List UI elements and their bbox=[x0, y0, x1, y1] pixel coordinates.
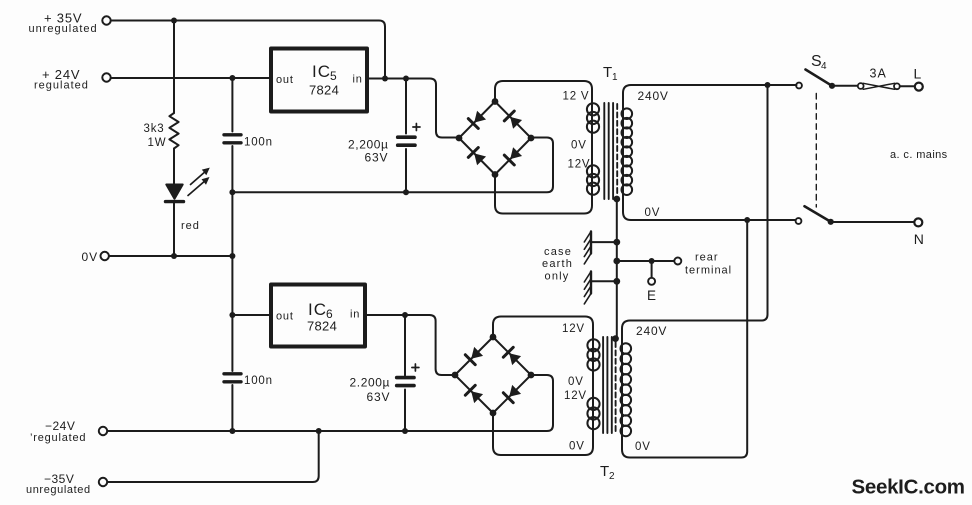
wire resistor chain top bbox=[173, 21, 175, 114]
svg-text:1W: 1W bbox=[148, 137, 167, 149]
svg-text:5: 5 bbox=[330, 69, 338, 83]
terminal +35V bbox=[102, 16, 110, 24]
svg-text:E: E bbox=[647, 288, 657, 303]
svg-text:case: case bbox=[544, 246, 572, 258]
BR2 diode D9 (bottom-right edge) bbox=[503, 384, 521, 402]
wire +24V to IC5 out bbox=[111, 77, 269, 79]
svg-text:63V: 63V bbox=[367, 390, 391, 404]
transformer T2 primary coils bbox=[587, 339, 599, 429]
svg-text:100n: 100n bbox=[244, 375, 273, 387]
switch S4 lower contact bbox=[796, 218, 802, 224]
svg-text:12 V: 12 V bbox=[563, 91, 590, 103]
terminal L bbox=[915, 83, 923, 91]
svg-text:63V: 63V bbox=[365, 151, 389, 165]
svg-text:0V: 0V bbox=[569, 441, 585, 453]
wire column x232 middle bbox=[231, 146, 233, 371]
BR2 diode D6 (top-left edge) bbox=[465, 346, 483, 364]
svg-text:0V: 0V bbox=[82, 250, 99, 264]
wire column x232 top bbox=[231, 78, 233, 132]
junction earth/ground2 bbox=[613, 278, 620, 285]
junction earth/rear bbox=[613, 258, 620, 265]
svg-text:0V: 0V bbox=[568, 376, 584, 388]
junction -24V/C4 bbox=[402, 428, 408, 434]
capacitor C2 2200u 63V plates bbox=[398, 135, 415, 139]
wire E drop bbox=[651, 261, 653, 278]
svg-text:earth: earth bbox=[542, 258, 573, 270]
terminal E bbox=[648, 278, 655, 285]
transformer T2 secondary and 240V/0V wires bbox=[622, 85, 768, 458]
node BR2 bottom bbox=[490, 410, 497, 417]
BR1 diode D4 (bottom-left edge) bbox=[468, 148, 486, 166]
wire 2200u top lead bbox=[405, 79, 407, 134]
svg-text:100n: 100n bbox=[244, 137, 273, 149]
svg-text:7824: 7824 bbox=[307, 319, 337, 334]
IC6 box bbox=[271, 285, 365, 347]
BR1 diode D3 (top-right edge) bbox=[504, 111, 522, 129]
wire switch to fuse bbox=[834, 85, 858, 87]
capacitor C4 2200u 63V plates bbox=[397, 376, 414, 380]
svg-text:2,200µ: 2,200µ bbox=[348, 138, 389, 152]
bridge rectifier BR2 diamond bbox=[455, 337, 531, 413]
switch S4 lower blade bbox=[805, 206, 831, 222]
svg-text:2.200µ: 2.200µ bbox=[350, 376, 391, 390]
svg-text:12V: 12V bbox=[568, 159, 591, 171]
transformer T1 secondary coils bbox=[622, 108, 633, 195]
terminal rear bbox=[674, 258, 681, 265]
wire -24V rail bbox=[107, 375, 553, 431]
svg-text:out: out bbox=[276, 311, 294, 323]
wire 2200u bottom lead bbox=[405, 149, 407, 192]
node BR1 bottom bbox=[492, 171, 499, 178]
junction +24V/C1 bbox=[229, 75, 235, 81]
terminal 0V bbox=[101, 252, 109, 260]
transformer T1 secondary and 240V/0V wires bbox=[623, 85, 797, 220]
wire IC6 in to bridge2 left bbox=[365, 315, 453, 375]
transformer T2 core bbox=[603, 337, 616, 433]
node BR1 right bbox=[528, 135, 535, 142]
junction earth/ground1 bbox=[613, 239, 620, 246]
svg-text:L: L bbox=[914, 66, 923, 82]
LED D1 red bbox=[166, 185, 182, 199]
junction on +35V rail at resistor bbox=[171, 18, 177, 24]
svg-text:in: in bbox=[353, 74, 363, 86]
svg-text:2: 2 bbox=[609, 471, 616, 482]
svg-text:240V: 240V bbox=[638, 89, 669, 103]
svg-text:N: N bbox=[914, 231, 925, 247]
wire IC5 in to bridge1 left bbox=[369, 79, 457, 138]
junction in-wire/C2 bbox=[403, 76, 409, 82]
svg-text:0V: 0V bbox=[635, 441, 651, 453]
BR1 diode D2 (top-left edge) bbox=[468, 110, 486, 128]
junction 0V/N line bbox=[744, 217, 750, 223]
svg-text:0V: 0V bbox=[645, 207, 661, 219]
svg-text:12V: 12V bbox=[564, 390, 587, 402]
svg-text:red: red bbox=[181, 220, 200, 232]
svg-text:0V: 0V bbox=[571, 140, 587, 152]
wire BR1 to T1 primary loop bbox=[495, 81, 592, 214]
LED arrows bbox=[188, 171, 207, 196]
terminal -24V bbox=[99, 427, 107, 435]
svg-text:regulated: regulated bbox=[34, 80, 89, 92]
junction rear/E bbox=[649, 258, 655, 264]
switch S4 upper contact bbox=[796, 83, 802, 89]
wire 2200u-2 bottom lead bbox=[404, 390, 406, 432]
svg-text:IC: IC bbox=[312, 62, 331, 81]
capacitor C3 100n plates bbox=[224, 372, 241, 375]
svg-text:a. c. mains: a. c. mains bbox=[890, 149, 948, 161]
node BR1 top bbox=[492, 98, 499, 105]
node BR2 left bbox=[452, 372, 459, 379]
svg-text:in: in bbox=[350, 309, 360, 321]
svg-text:only: only bbox=[545, 271, 570, 283]
node BR2 right bbox=[528, 372, 535, 379]
C2 plus sign bbox=[413, 124, 420, 131]
svg-text:−24V: −24V bbox=[45, 419, 75, 433]
junction T2 screen bbox=[612, 335, 619, 342]
BR2 diode D7 (top-right edge) bbox=[503, 347, 521, 365]
wire switch to N terminal bbox=[834, 221, 915, 223]
switch S4 upper blade bbox=[806, 70, 833, 86]
chassis ground symbol 2 bbox=[584, 272, 617, 304]
svg-text:’regulated: ’regulated bbox=[30, 432, 86, 444]
wire -35V link bbox=[107, 431, 318, 482]
svg-text:3k3: 3k3 bbox=[144, 123, 165, 135]
wire resistor to LED bbox=[173, 149, 175, 185]
svg-text:IC: IC bbox=[308, 300, 327, 319]
wire IC6 out bbox=[232, 314, 271, 316]
wire column x232 bottom bbox=[231, 385, 233, 431]
junction 0V-mid/C1 bbox=[229, 189, 235, 195]
junction 0V-mid/C2 bbox=[403, 189, 409, 195]
switch S4 upper pivot bbox=[829, 83, 835, 89]
svg-text:4: 4 bbox=[821, 61, 828, 72]
svg-text:unregulated: unregulated bbox=[29, 23, 98, 35]
IC5 box bbox=[271, 49, 367, 112]
junction 0V rail/LED bbox=[171, 253, 177, 259]
junction IC6 in/C4 bbox=[402, 312, 408, 318]
svg-text:rear: rear bbox=[695, 252, 719, 264]
transformer T1 primary coils bbox=[587, 103, 599, 195]
switch S4 dashed link bbox=[815, 94, 817, 208]
svg-text:3A: 3A bbox=[870, 67, 887, 81]
terminal -35V bbox=[99, 478, 107, 486]
wire 0V terminal rail bbox=[109, 255, 232, 257]
junction in-wire/x385 bbox=[382, 76, 388, 82]
C4 plus sign bbox=[412, 364, 419, 371]
fuse F1 3A bbox=[858, 83, 915, 89]
svg-text:7824: 7824 bbox=[309, 83, 339, 98]
junction -24V/x232 bbox=[229, 428, 235, 434]
junction IC6 out bbox=[229, 312, 235, 318]
BR2 diode D8 (bottom-left edge) bbox=[465, 385, 483, 403]
capacitor C1 100n plates bbox=[224, 133, 241, 136]
switch S4 lower pivot bbox=[828, 219, 834, 225]
junction 0V rail/x232 bbox=[229, 253, 235, 259]
wire 2200u-2 top lead bbox=[404, 315, 406, 376]
chassis ground symbol 1 bbox=[584, 232, 617, 264]
junction -24V/-35V link bbox=[316, 428, 322, 434]
transformer T1 core bbox=[604, 103, 617, 199]
bridge rectifier BR1 diamond bbox=[459, 102, 531, 175]
svg-text:240V: 240V bbox=[636, 324, 667, 338]
transformer T2 secondary coils bbox=[621, 343, 632, 436]
terminal N bbox=[914, 218, 922, 226]
wire earth screen vertical bbox=[616, 199, 618, 339]
terminal +24V bbox=[102, 73, 110, 81]
node BR2 top bbox=[490, 334, 497, 341]
svg-text:1: 1 bbox=[612, 72, 619, 83]
resistor R 3k3 1W bbox=[169, 113, 178, 149]
wire BR2 to T2 primary loop bbox=[493, 317, 593, 456]
svg-text:12V: 12V bbox=[562, 323, 585, 335]
BR1 diode D5 (bottom-right edge) bbox=[504, 147, 522, 165]
svg-text:SeekIC.com: SeekIC.com bbox=[852, 476, 965, 499]
wire LED to 0V rail bbox=[173, 203, 175, 256]
wire 0V mid rail bbox=[232, 138, 553, 193]
svg-text:out: out bbox=[276, 74, 294, 86]
node BR1 left bbox=[456, 135, 463, 142]
junction T1 screen bbox=[613, 196, 620, 203]
junction 240V/L line bbox=[765, 82, 771, 88]
wire +35V rail bbox=[111, 21, 385, 77]
wire rear terminal bbox=[617, 260, 674, 262]
svg-text:terminal: terminal bbox=[685, 265, 732, 277]
svg-text:unregulated: unregulated bbox=[26, 484, 91, 496]
